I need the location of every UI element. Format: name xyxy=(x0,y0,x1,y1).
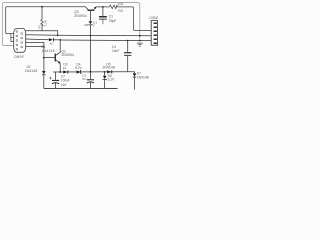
svg-text:DB9F: DB9F xyxy=(14,55,24,59)
svg-text:2N3904: 2N3904 xyxy=(74,14,87,18)
svg-text:R1: R1 xyxy=(37,24,41,28)
svg-text:A2: A2 xyxy=(50,41,54,45)
svg-text:1N4148: 1N4148 xyxy=(41,49,54,53)
svg-text:2N3904: 2N3904 xyxy=(61,53,74,57)
svg-text:2.2K: 2.2K xyxy=(43,20,47,26)
svg-text:R3: R3 xyxy=(118,9,122,13)
svg-text:1N4148: 1N4148 xyxy=(137,75,149,79)
svg-text:5.1V: 5.1V xyxy=(108,77,115,81)
svg-text:10uF: 10uF xyxy=(112,49,119,53)
svg-text:1N4148: 1N4148 xyxy=(102,66,114,70)
svg-text:D8: D8 xyxy=(84,23,88,27)
svg-text:6V: 6V xyxy=(82,77,86,81)
svg-text:1N4148: 1N4148 xyxy=(25,69,38,73)
svg-text:100uF: 100uF xyxy=(61,79,70,83)
svg-text:100: 100 xyxy=(118,2,124,6)
svg-text:4A: 4A xyxy=(63,66,67,70)
svg-text:6.2V: 6.2V xyxy=(75,66,82,70)
svg-text:CON2: CON2 xyxy=(149,16,158,20)
svg-text:16V: 16V xyxy=(61,83,68,87)
svg-text:33pF: 33pF xyxy=(109,19,117,23)
